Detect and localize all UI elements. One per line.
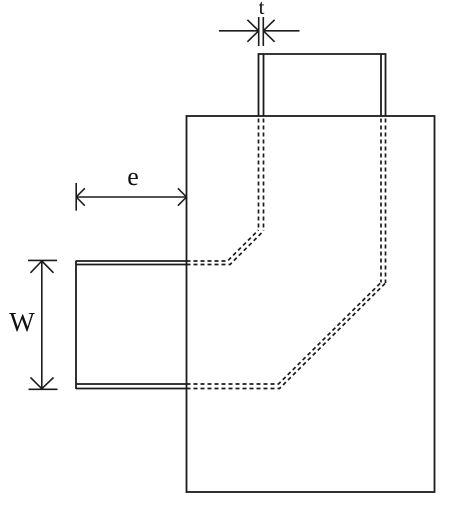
svg-text:e: e: [127, 162, 139, 191]
svg-text:t: t: [259, 0, 265, 19]
svg-text:W: W: [9, 307, 35, 337]
